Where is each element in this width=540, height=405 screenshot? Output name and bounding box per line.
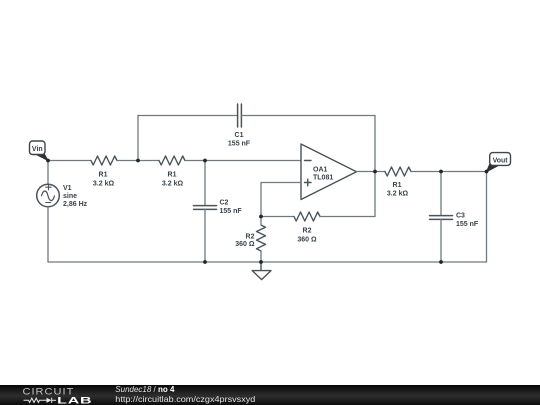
junction node: non-inverting / R2 [259,215,263,219]
junction node: C2 bottom [203,260,207,264]
junction node: op-amp output [373,170,377,174]
wire: right edge Vout down [486,172,488,263]
net flag Vin [30,141,49,161]
op-amp OA1 [301,144,357,200]
svg-text:2,86 Hz: 2,86 Hz [63,201,88,208]
svg-text:http://circuitlab.com/czgx4prs: http://circuitlab.com/czgx4prsvsxyd [115,393,255,403]
svg-text:R1: R1 [99,172,108,179]
svg-text:sine: sine [63,193,77,200]
wire: R2 vertical bottom lead [260,251,262,262]
junction node: ground rail [259,260,263,264]
svg-text:3.2 kΩ: 3.2 kΩ [162,181,184,188]
wire: C3 top lead [440,172,442,216]
resistor R1 (second) [159,156,185,188]
svg-text:Vin: Vin [32,146,43,153]
svg-text:OA1: OA1 [313,167,328,174]
svg-text:R1: R1 [393,182,402,189]
footer bar [0,385,540,405]
wire: bottom rail [48,261,487,263]
svg-text:C1: C1 [235,132,244,139]
wire: Vin node to R1a [48,160,91,162]
capacitor C1 [228,104,251,148]
wire: V1 bottom lead [47,207,49,262]
svg-text:TL081: TL081 [313,175,333,182]
svg-text:R2: R2 [246,234,255,241]
wire: V1 top lead [47,161,49,185]
svg-text:V1: V1 [63,185,72,192]
wire: non-inverting input horizontal [261,182,301,184]
resistor R1 (output) [385,167,411,198]
wire: op-amp output [357,171,386,173]
resistor R1 (first, input) [91,156,117,188]
wire: C2 top lead [204,161,206,206]
junction node: C1 tap [136,159,140,163]
wire: top feedback right of C1 [241,115,375,117]
svg-text:155 nF: 155 nF [456,221,479,228]
voltage source V1 [37,184,88,208]
logo circuit glyph [24,397,57,402]
wire: R1 output to Vout node [411,171,487,173]
svg-text:360 Ω: 360 Ω [235,241,255,248]
svg-text:3.2 kΩ: 3.2 kΩ [387,191,409,198]
junction node: Vout [485,170,489,174]
wire: R1b to op-amp inverting input [185,160,301,162]
svg-text:155 nF: 155 nF [228,141,251,148]
junction node: C2 tap [203,159,207,163]
wire: non-inverting riser down [260,183,262,217]
wire: right feedback riser down to output node [374,116,376,172]
wire: R2 horizontal left lead [261,216,294,218]
wire: C2 bottom lead [204,209,206,262]
svg-text:R2: R2 [303,228,312,235]
svg-text:LAB: LAB [57,394,92,405]
svg-text:155 nF: 155 nF [220,208,243,215]
svg-text:C2: C2 [220,200,229,207]
junction node: Vin [46,159,50,163]
svg-text:C3: C3 [456,213,465,220]
resistor R2 (feedback) [294,212,320,244]
capacitor C3 [430,213,479,229]
wire: riser to C1 feedback [137,116,139,161]
svg-text:360 Ω: 360 Ω [297,237,317,244]
junction node: C3 bottom [439,260,443,264]
wire: R2 vertical top lead [260,217,262,226]
svg-text:Sundec18 / no 4: Sundec18 / no 4 [115,385,175,394]
svg-text:R1: R1 [168,172,177,179]
ground [252,262,271,280]
wire: riser from output node down to R2 [374,172,376,217]
wire: R1a to R1b with C1 tap [117,160,159,162]
resistor R2 (to ground, vertical) [235,225,265,251]
wire: top feedback left of C1 [138,115,238,117]
svg-text:Vout: Vout [493,157,509,164]
wire: R2 horizontal right lead to riser [320,216,375,218]
wire: C3 bottom lead [440,219,442,262]
svg-text:3.2 kΩ: 3.2 kΩ [93,181,115,188]
junction node: C3 tap [439,170,443,174]
net flag Vout [487,153,511,172]
capacitor C2 [194,200,243,216]
